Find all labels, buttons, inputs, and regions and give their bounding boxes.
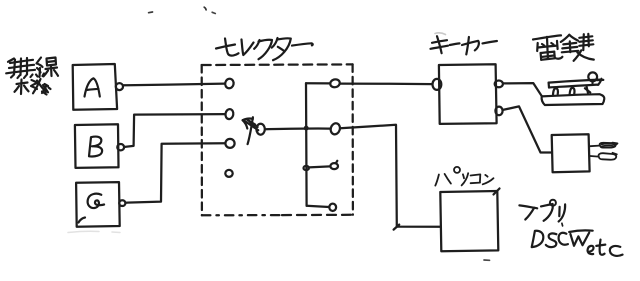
- bus stub to output contact 3: [309, 166, 330, 167]
- radio A terminal: [116, 83, 123, 90]
- wire B to selector contact 2: [124, 114, 225, 147]
- radio B box: [75, 124, 119, 168]
- wire A to selector contact 1: [124, 84, 225, 86]
- plug prong 1: [600, 143, 618, 148]
- wire selector output 1 to keyer: [340, 82, 432, 85]
- corner tick on PC wire: [394, 225, 400, 230]
- radio A letter: [85, 78, 100, 96]
- radio A box: [73, 64, 117, 110]
- plug prong 2: [599, 153, 617, 160]
- wire selector output 2 to PC: [340, 125, 440, 227]
- stray mark below PC box: [484, 259, 490, 261]
- radio C terminal: [119, 200, 125, 206]
- PC box corner overshoot: [494, 189, 500, 195]
- stray dot top middle: [212, 12, 215, 13]
- bus stub to output contact 1: [306, 82, 330, 84]
- faint smudges bottom left: [68, 231, 120, 232]
- wire keyer to paddle box: [503, 106, 552, 152]
- straight key pivot support: [587, 87, 588, 93]
- wire C to selector contact 3: [125, 143, 225, 202]
- keyer input terminal: [433, 79, 442, 90]
- radio C box: [76, 182, 120, 227]
- radio C letter: [88, 194, 105, 208]
- output contact 3 spur: [336, 161, 338, 164]
- selector output contact 3: [330, 163, 338, 169]
- bus stub to output contact 4: [307, 206, 329, 207]
- selector output bus: [305, 83, 308, 205]
- straight key contact posts: [553, 88, 558, 94]
- faint smudge above keyer label: [435, 33, 446, 35]
- keyer box: [439, 64, 497, 124]
- straight key knob: [588, 72, 597, 81]
- radio C box inner tick: [79, 218, 86, 223]
- selector dashed box: [202, 64, 353, 215]
- keyer output terminal (top, to key): [495, 81, 503, 88]
- junction dot on bus: [304, 126, 309, 131]
- straight key base: [542, 94, 605, 105]
- plug prong 2 stub: [590, 155, 598, 158]
- selector contact 1: [224, 78, 234, 89]
- paddle box: [552, 134, 590, 172]
- label etc: [588, 240, 623, 256]
- radio B letter: [89, 137, 102, 157]
- stray tick top middle: [204, 7, 206, 10]
- selector output contact 2: [329, 122, 341, 135]
- selector contact 2: [225, 108, 234, 119]
- label 無線機 (radios): [6, 58, 58, 95]
- wire keyer to straight key: [503, 83, 542, 96]
- label DSCW: [532, 223, 593, 247]
- label キーヤー: [431, 36, 497, 54]
- selector contact 3: [225, 139, 234, 148]
- label セレクター: [216, 38, 313, 60]
- label アプリ: [519, 200, 565, 222]
- selector output contact 4: [329, 204, 336, 211]
- bus junction loop at branch 3: [304, 166, 309, 170]
- plug prong 1 stub: [590, 145, 599, 148]
- straight key knob neck: [591, 81, 593, 83]
- wire wiper to output contact 2: [265, 127, 331, 130]
- straight key lever: [549, 80, 600, 83]
- selector output contact 1: [329, 78, 340, 88]
- keyer output terminal (bottom, to paddle): [495, 107, 502, 116]
- radio B terminal: [117, 144, 124, 150]
- PC box: [440, 191, 498, 251]
- selector wiper pivot: [256, 124, 264, 135]
- selector contact 4 (spare): [225, 170, 232, 177]
- label パソコン: [435, 167, 493, 186]
- selector wiper arrow: [243, 117, 259, 144]
- stray dash top-left: [149, 11, 153, 14]
- label 電鍵: [533, 34, 594, 61]
